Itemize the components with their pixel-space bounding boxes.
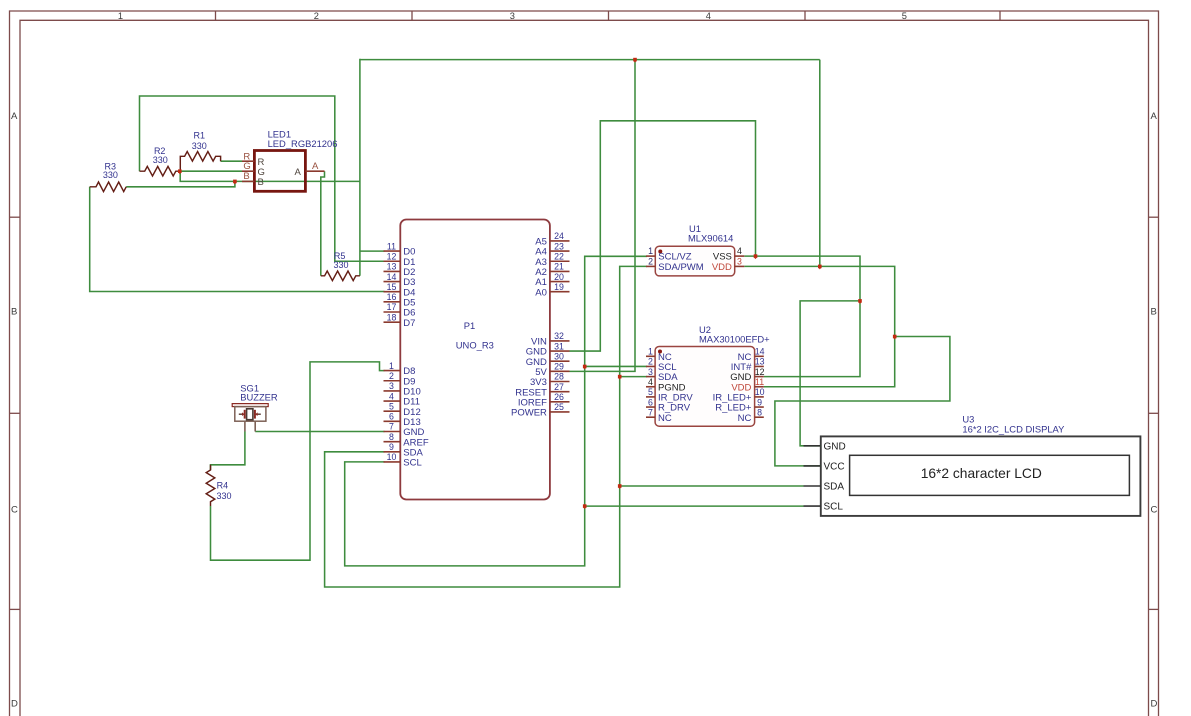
svg-text:2: 2 [648,256,653,266]
wire 5V net: top horizontal bus [360,59,820,61]
svg-text:21: 21 [554,262,564,272]
svg-text:3: 3 [389,381,394,391]
svg-text:14: 14 [387,272,397,282]
svg-text:9: 9 [389,442,394,452]
svg-text:UNO_R3: UNO_R3 [456,340,494,351]
svg-text:MAX30100EFD+: MAX30100EFD+ [699,333,770,344]
svg-text:B: B [243,171,249,182]
svg-text:27: 27 [554,382,564,392]
svg-text:11: 11 [387,241,396,251]
svg-text:7: 7 [389,422,394,432]
wire SCL net: U1 pin1 loop to UNO SCL pin10 [345,256,647,566]
svg-text:D7: D7 [403,318,415,329]
wire node G: junction to LED G pin [180,170,242,172]
svg-text:P1: P1 [464,320,475,331]
wire D1 net: pin12 to R2 left terminal [140,96,385,261]
svg-text:8: 8 [757,407,762,417]
wire D0 pin11 connection [360,250,385,252]
wire VDD net: U1 VDD to U2 VDD pin11 [744,266,894,386]
svg-text:14: 14 [755,347,765,357]
wire buzzer left leg to R4 top [211,432,245,471]
svg-text:10: 10 [387,452,397,462]
svg-text:3: 3 [737,256,742,266]
svg-text:3: 3 [648,367,653,377]
P1 pins left D0-D7 (11-18) [384,251,401,462]
svg-text:22: 22 [554,251,564,261]
svg-text:15: 15 [387,282,397,292]
resistor R3 [90,182,127,192]
U3 LCD pins GND VCC SDA SCL [804,446,821,506]
svg-text:24: 24 [554,231,564,241]
svg-text:330: 330 [103,170,118,180]
svg-text:D: D [11,699,18,710]
svg-text:C: C [1151,505,1158,516]
U2 pins 1-7 left and 14-8 right [646,356,764,417]
svg-text:6: 6 [648,397,653,407]
svg-text:23: 23 [554,241,564,251]
svg-text:8: 8 [389,432,394,442]
svg-text:16: 16 [387,292,397,302]
svg-text:1: 1 [648,246,653,256]
wire R1 right to LED R pin [221,160,242,162]
wire SDA net: U1 pin2 loop to UNO SDA pin9 [325,266,647,587]
svg-text:17: 17 [387,302,397,312]
svg-text:1: 1 [648,347,653,357]
svg-text:2: 2 [648,357,653,367]
svg-text:29: 29 [554,362,564,372]
svg-text:25: 25 [554,402,564,412]
svg-text:30: 30 [554,351,564,361]
wire GND net: UNO pin31 up and over to U1 VSS riser [570,121,756,351]
svg-text:16*2 I2C_LCD DISPLAY: 16*2 I2C_LCD DISPLAY [962,423,1065,434]
U1 pin1 marker [658,250,662,254]
wire SDA net: branch to LCD SDA [620,485,804,487]
svg-text:5: 5 [902,11,907,21]
svg-text:28: 28 [554,372,564,382]
U1 pins 1,2 left and 4,3 right [646,256,744,266]
svg-text:NC: NC [658,413,672,424]
LCD U3 body [821,436,1141,516]
svg-text:VDD: VDD [712,262,732,273]
resistor R1 [180,152,220,172]
svg-text:4: 4 [706,11,711,21]
svg-text:20: 20 [554,272,564,282]
op-amp U1 MLX90614 body [655,246,734,276]
svg-text:R1: R1 [194,131,206,141]
svg-text:C: C [11,505,18,516]
svg-text:B: B [11,307,17,318]
svg-text:GND: GND [824,441,846,452]
svg-text:LED_RGB21206: LED_RGB21206 [268,138,338,149]
svg-text:BUZZER: BUZZER [240,392,278,403]
P1 pin numbers [387,231,564,462]
svg-text:4: 4 [389,391,394,401]
wire 5V net: vertical to R5 right terminal [359,59,361,276]
svg-text:12: 12 [755,367,765,377]
wire R3 left to UNO D4 pin15 [90,187,385,292]
svg-text:D: D [1151,699,1158,710]
wire GND net: branch to LCD GND [800,301,860,446]
wire node B: junction through LED box [180,171,360,181]
wire VDD net: branch to LCD VCC [775,337,950,466]
resistor R2 [140,166,181,176]
svg-text:A: A [11,111,18,122]
svg-text:2: 2 [389,371,394,381]
wire 5V net: drop to U1 VDD row [819,60,821,267]
svg-text:A: A [1151,111,1158,122]
svg-text:13: 13 [755,357,765,367]
wire R3 to node B [126,181,235,186]
wire LED A pin to R5 left terminal [321,171,325,276]
svg-text:1: 1 [118,11,123,21]
wire buzzer right leg to UNO GND pin7 [255,431,384,433]
svg-text:32: 32 [554,331,564,341]
resistor R4 [206,465,215,506]
svg-text:330: 330 [192,141,207,151]
svg-text:330: 330 [153,155,168,165]
wire SCL net: branch to U2 SCL pin2 [585,365,647,367]
svg-text:5: 5 [389,401,394,411]
svg-text:SDA/PWM: SDA/PWM [658,262,703,273]
svg-text:MLX90614: MLX90614 [688,233,733,244]
svg-text:NC: NC [738,413,752,424]
svg-text:4: 4 [648,377,653,387]
svg-text:5: 5 [648,387,653,397]
resistor R5 [321,271,360,281]
svg-text:SDA: SDA [824,482,845,493]
svg-text:B: B [1151,307,1157,318]
svg-text:16*2 character LCD: 16*2 character LCD [921,466,1042,481]
wire SCL net: branch to LCD SCL [585,505,804,507]
svg-text:9: 9 [757,397,762,407]
frame column numbers [118,11,907,21]
wire D8 net: UNO pin1 to R4 bottom [211,362,385,560]
buzzer SG1 [232,404,268,432]
svg-text:330: 330 [217,491,232,501]
svg-text:31: 31 [554,341,564,351]
svg-text:18: 18 [387,312,397,322]
wire SDA net: branch to U2 SDA pin3 [620,376,647,378]
svg-text:10: 10 [755,387,765,397]
svg-text:A: A [312,161,319,172]
svg-text:3: 3 [510,11,515,21]
svg-text:26: 26 [554,392,564,402]
svg-text:12: 12 [387,251,397,261]
svg-text:19: 19 [554,282,564,292]
svg-text:13: 13 [387,262,397,272]
LED1 pins R G B left, A right [242,161,325,181]
wire 5V net: UNO pin29 to vertical riser [570,60,636,372]
sensor U2 MAX30100EFD+ body [655,347,755,427]
svg-text:6: 6 [389,412,394,422]
svg-text:SCL: SCL [403,458,421,469]
wire GND net: U1 VSS to U2 GND pin12 [744,256,860,377]
U2 pin1 marker [658,350,662,354]
svg-text:SCL: SCL [824,502,844,513]
svg-text:B: B [258,177,264,188]
svg-text:VCC: VCC [824,462,845,473]
svg-text:R4: R4 [217,481,229,491]
LED LED1 LED_RGB21206 body [254,151,305,192]
svg-text:7: 7 [648,407,653,417]
svg-text:4: 4 [737,246,742,256]
svg-text:A0: A0 [535,287,547,298]
svg-text:POWER: POWER [511,408,547,419]
svg-text:A: A [294,167,301,178]
connector P1 UNO_R3 body [400,220,550,500]
svg-text:330: 330 [333,260,348,270]
LCD U3 inner screen [850,455,1130,495]
svg-text:2: 2 [314,11,319,21]
svg-text:1: 1 [389,361,394,371]
svg-text:11: 11 [755,377,764,387]
P1 pins right A5-A0 and power [550,241,570,412]
